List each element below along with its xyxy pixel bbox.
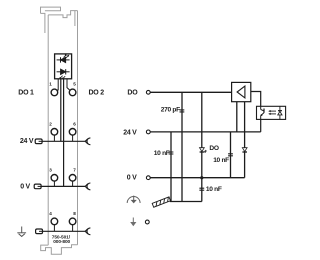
wire: chassis line	[170, 201, 202, 203]
clamp symbol earth	[85, 228, 90, 235]
wire: LED box lead to terminal 5	[67, 79, 70, 91]
LED DO1 (top symbol in box)	[57, 55, 70, 63]
svg-text:0 V: 0 V	[127, 175, 137, 182]
wire: 24V line	[150, 131, 261, 133]
phototransistor	[261, 106, 264, 119]
svg-text:DO: DO	[209, 145, 218, 152]
chassis ground symbol	[152, 197, 170, 207]
clamp symbol 24V	[85, 138, 90, 145]
terminal 3	[51, 175, 58, 182]
wire: opto emitter to 24V	[260, 119, 262, 131]
connector plug earth	[36, 229, 43, 234]
capacitor 270 pF	[180, 110, 185, 112]
module outline left edge	[47, 15, 49, 245]
connector plug 0V	[34, 184, 41, 189]
light arrows	[268, 110, 276, 115]
svg-text:6: 6	[73, 121, 76, 126]
svg-text:10 nF: 10 nF	[154, 150, 170, 157]
wire: stub terminal 4	[53, 225, 55, 232]
wire: stub terminal 8	[72, 225, 74, 232]
terminal 7	[69, 175, 76, 182]
wire: stub terminal 7	[72, 181, 74, 186]
terminal 6	[69, 129, 76, 136]
terminal 2	[51, 129, 58, 136]
terminal circle DO	[146, 90, 150, 94]
wire: DO line	[150, 91, 231, 93]
wire: 24V to chassis branch (x=171)	[170, 132, 172, 202]
terminal circle 0V	[146, 176, 150, 180]
functional earth arrow (module)	[17, 227, 26, 237]
terminal 1	[51, 89, 58, 96]
svg-text:DO 2: DO 2	[89, 90, 105, 97]
wire: LED box lead to terminal 1	[56, 79, 58, 90]
wire: DO status branch (x=201.8)	[201, 92, 203, 201]
junction dot 0V/earth	[200, 176, 203, 179]
svg-text:4: 4	[49, 211, 52, 216]
connector plug 24V	[35, 139, 42, 144]
svg-text:5: 5	[73, 82, 76, 87]
wire: DO to chassis branch (x=182)	[181, 92, 183, 201]
functional earth symbol (circle)	[127, 196, 140, 204]
svg-text:10 nF: 10 nF	[213, 157, 229, 164]
svg-text:7: 7	[73, 167, 76, 172]
svg-text:270 pF: 270 pF	[161, 106, 180, 113]
wire: stub terminal 2	[53, 135, 55, 141]
svg-text:DO: DO	[127, 90, 138, 97]
svg-text:10 nF: 10 nF	[206, 186, 222, 193]
wire: internal 0V bus	[63, 79, 65, 187]
wire: driver output to 0V (x=244.6)	[244, 102, 246, 178]
wire: stub terminal 6	[72, 135, 74, 141]
capacitor 10 nF (0V-earth)	[199, 188, 204, 190]
svg-text:8: 8	[73, 211, 76, 216]
module outline right edge	[77, 11, 79, 245]
svg-text:3: 3	[49, 167, 52, 172]
svg-text:1: 1	[49, 82, 52, 87]
terminal 4	[51, 218, 58, 225]
svg-text:24 V: 24 V	[20, 138, 34, 145]
svg-text:DO 1: DO 1	[18, 90, 34, 97]
driver box U1	[232, 82, 251, 101]
wire: driver output to optocoupler	[251, 92, 261, 107]
capacitor 10 nF (24V-0V)	[228, 154, 233, 156]
terminal 8	[69, 218, 76, 225]
wire: stub terminal 3	[53, 181, 55, 186]
wire: internal 24V bus	[60, 79, 62, 142]
terminal circle 24V	[146, 130, 150, 134]
wire: 0V line	[150, 177, 244, 179]
opto LED	[278, 106, 282, 119]
terminal 5	[69, 89, 76, 96]
clamp symbol 0V	[85, 183, 90, 190]
svg-text:000-800: 000-800	[53, 239, 70, 245]
field terminal circle	[145, 220, 149, 224]
LED DO (status)	[200, 148, 207, 153]
wire: 24V to 0V branch (x=230.5)	[230, 132, 232, 178]
module outline bottom foot	[41, 245, 78, 255]
wire: 0V field row	[41, 185, 85, 187]
svg-text:0 V: 0 V	[20, 183, 30, 190]
svg-text:2: 2	[49, 121, 52, 126]
optocoupler box U2	[257, 106, 286, 119]
driver triangle	[237, 86, 245, 98]
capacitor 10 nF (24V-earth)	[169, 152, 174, 154]
wire: driver supply left (x=236.8)	[236, 102, 238, 132]
svg-text:24 V: 24 V	[123, 129, 137, 136]
diode (freewheel)	[242, 148, 247, 152]
wire: 24V field row	[42, 140, 85, 142]
module outline top contour	[41, 7, 78, 33]
field earth arrow	[130, 218, 136, 227]
wire: earth field row	[43, 230, 86, 232]
LED DO2 (bottom symbol in box)	[57, 69, 70, 79]
indicator box	[55, 54, 72, 79]
